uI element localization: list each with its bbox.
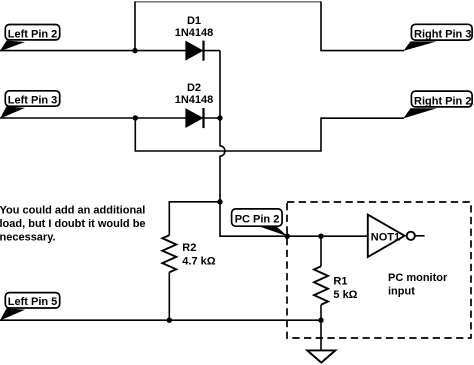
resistor R1 [314,266,328,304]
node Left Pin 3 (callout flag) [0,91,60,119]
wire R1 lower lead [320,305,322,321]
junction: R2 at Left Pin 5 wire [167,318,172,323]
junction: D2 cathode at main vertical [217,115,222,120]
diode D2 [186,108,204,128]
svg-text:D2: D2 [187,82,201,94]
node Right Pin 2 (callout flag) [403,91,472,118]
wire D2 cathode stub [204,117,221,119]
wire NOT1 output stub [415,235,425,237]
junction: R1 tap [318,234,323,239]
svg-text:PC monitor: PC monitor [388,272,448,284]
junction: R1 at Left Pin 5 wire end [318,318,323,323]
svg-text:Right Pin 2: Right Pin 2 [414,95,471,107]
wire R2 bottom to Left Pin 5 wire [168,272,170,320]
junction: Left Pin 3 wire / under-route drop [133,115,138,120]
junction: Left Pin 2 wire / top bus riser [132,48,137,53]
wire top bus drop to Right Pin 3 [321,2,404,51]
svg-text:5 kΩ: 5 kΩ [333,289,357,301]
svg-text:Left Pin 5: Left Pin 5 [8,296,58,308]
wire main vertical (D1/D2 cathodes to PC Pin 2 net, hops over under-route) [220,51,368,237]
svg-text:load, but I doubt it would be: load, but I doubt it would be [0,218,146,230]
wire Left Pin 3 to D2 anode [0,117,187,119]
wire Left Pin 2 to D1 anode [0,50,187,52]
svg-text:necessary.: necessary. [0,232,56,244]
node Right Pin 3 (callout flag) [403,24,472,51]
svg-text:You could add an additional: You could add an additional [0,205,145,217]
svg-text:R1: R1 [333,276,347,288]
inverter NOT1 [368,215,415,257]
resistor R2 [162,235,176,272]
PC monitor input boundary (dashed box) [287,202,471,338]
svg-text:Left Pin 2: Left Pin 2 [8,28,58,40]
svg-text:input: input [388,286,415,298]
svg-text:Right Pin 3: Right Pin 3 [414,28,471,40]
svg-text:4.7 kΩ: 4.7 kΩ [182,256,215,268]
wire top bus (Left Pin 2 net to Right Pin 3) [135,1,322,3]
wire Left Pin 5 (to R1/ground column) [0,319,321,321]
junction: PC Pin 2 tap at dashed box edge [285,234,290,239]
wire under-route (Left Pin 3 net to Right Pin 2) [135,118,404,151]
diode D1 [186,41,204,61]
junction: R2 branch tap on main vertical [217,199,222,204]
svg-text:PC Pin 2: PC Pin 2 [235,213,280,225]
svg-text:1N4148: 1N4148 [175,27,214,39]
svg-text:D1: D1 [187,15,201,27]
node Left Pin 5 (callout flag) [0,293,60,321]
node Left Pin 2 (callout flag) [0,25,60,52]
wire R2 branch (tap to R2 top) [169,202,220,235]
wire riser from Left Pin 2 wire up to top bus [134,2,136,51]
svg-text:Left Pin 3: Left Pin 3 [8,94,58,106]
svg-text:R2: R2 [182,242,196,254]
ground [307,350,335,362]
wire to ground [320,320,322,350]
svg-text:1N4148: 1N4148 [175,94,214,106]
node PC Pin 2 (callout flag) [232,209,288,236]
wire R1 upper lead [320,236,322,266]
annotation note text [0,205,146,244]
svg-text:NOT1: NOT1 [371,232,400,244]
wire D1 cathode to main vertical [204,50,221,52]
